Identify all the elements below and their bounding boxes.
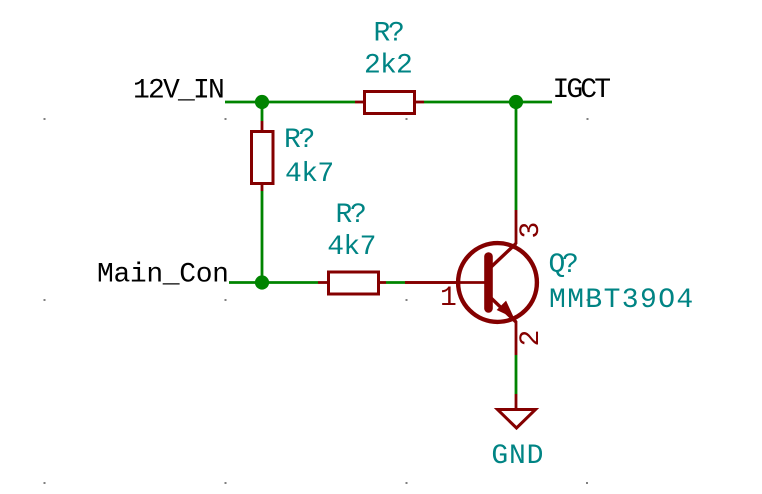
svg-text:12V_IN: 12V_IN [133,76,223,107]
svg-text:4k7: 4k7 [327,232,376,263]
svg-text:Q?: Q? [549,250,578,281]
svg-text:3: 3 [516,222,547,239]
svg-text:R?: R? [373,19,403,50]
svg-text:1: 1 [440,283,457,314]
svg-text:GND: GND [491,441,544,472]
svg-text:Main_Con: Main_Con [97,260,229,291]
svg-text:IGCT: IGCT [553,75,611,106]
svg-text:R?: R? [335,200,365,231]
svg-text:4k7: 4k7 [285,159,334,190]
svg-text:2: 2 [516,330,547,347]
svg-text:R?: R? [284,125,314,156]
svg-text:MMBT39O4: MMBT39O4 [549,285,695,316]
svg-text:2k2: 2k2 [364,51,412,82]
